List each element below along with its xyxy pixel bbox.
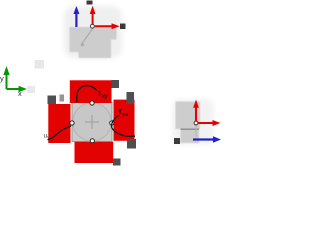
top deformed element gray blob — [70, 27, 117, 58]
leader squiggle left — [48, 126, 72, 140]
right element gray blob lower — [181, 129, 200, 143]
dark blob right of right arm bottom — [127, 139, 136, 149]
node right mid — [110, 121, 114, 125]
center cross — [85, 115, 99, 129]
right blue arrow — [193, 136, 221, 143]
left red shear arrow — [48, 104, 70, 143]
top tiny label right of x arrow — [120, 24, 126, 30]
leader squiggle tau_xy — [77, 86, 97, 103]
inscribed circle — [73, 103, 112, 142]
faint smudge near green axes — [35, 60, 45, 69]
node left mid — [70, 121, 74, 125]
svg-text:uy: uy — [44, 133, 51, 140]
top tiny label above y arrow — [87, 1, 93, 5]
right element gray blob upper — [176, 102, 201, 130]
svg-text:y: y — [0, 74, 4, 83]
right red axes origin node — [194, 121, 198, 125]
right red x-axis arrow — [198, 120, 221, 126]
dark blob below bottom arm right — [113, 159, 121, 166]
soft halo right figure — [172, 99, 214, 145]
node bottom mid — [90, 139, 94, 143]
soft halo top figure — [64, 6, 122, 58]
top element internal line — [81, 28, 93, 45]
dark sliver left of top arm tail — [60, 95, 65, 102]
dark blob top right of top arm — [111, 80, 119, 88]
right element dark corner blob — [174, 138, 180, 144]
dark blob left of top arm — [48, 96, 57, 105]
right red y-axis arrow — [193, 100, 199, 122]
node top mid — [90, 101, 94, 105]
top red shear arrow — [70, 80, 112, 103]
right red shear arrow — [114, 100, 135, 141]
right element step line — [181, 128, 200, 130]
bottom red shear arrow — [75, 142, 114, 163]
svg-text:x: x — [18, 89, 22, 98]
leader squiggle tau_yx — [112, 115, 135, 136]
right element faint vertical line — [195, 125, 197, 138]
top red x-axis arrow — [95, 23, 120, 29]
central stress element square — [72, 103, 112, 142]
top red y-axis arrow — [90, 6, 96, 24]
top blue arrow (displacement) — [73, 6, 79, 27]
dark blob above right arm — [127, 92, 135, 104]
top red axes origin node — [91, 24, 95, 28]
green axes — [3, 66, 26, 92]
